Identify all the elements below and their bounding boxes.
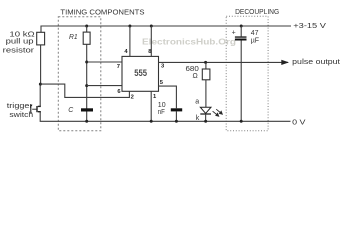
svg-text:DECOUPLING: DECOUPLING (235, 9, 279, 16)
trigger switch (39, 84, 41, 106)
svg-text:7: 7 (117, 64, 120, 70)
LED light arrows (213, 109, 223, 116)
svg-text:10: 10 (158, 102, 166, 109)
svg-text:nF: nF (158, 109, 165, 116)
svg-text:Ω: Ω (193, 73, 198, 80)
wire pin 1 to 0V (150, 91, 152, 121)
wire 0V rail (40, 112, 290, 122)
svg-text:pulse output: pulse output (292, 59, 340, 66)
svg-text:pull up: pull up (6, 38, 34, 45)
svg-text:2: 2 (131, 94, 134, 100)
resistor 680 (205, 62, 207, 69)
resistor R1 (85, 25, 88, 28)
wire pin 7 (87, 61, 122, 63)
svg-text:47: 47 (251, 30, 259, 37)
capacitor C (81, 108, 93, 111)
resistor 10k pull up (37, 32, 45, 45)
wire trigger to pin2 (40, 84, 129, 97)
dotted box DECOUPLING (226, 16, 268, 130)
node junction 10k/trigger (39, 83, 42, 86)
wire R1 bottom column to 0V (86, 44, 88, 121)
LED D1 (200, 107, 211, 113)
wire pin 4 (128, 25, 131, 28)
capacitor 47uF decoupling (240, 25, 243, 28)
svg-text:555: 555 (134, 67, 147, 78)
wire pin 3 pulse output (159, 61, 289, 63)
svg-text:ElectronicsHub.Org: ElectronicsHub.Org (142, 37, 236, 47)
svg-text:trigger: trigger (7, 103, 33, 110)
svg-text:TIMING COMPONENTS: TIMING COMPONENTS (60, 10, 144, 17)
capacitor 10nF (171, 108, 182, 111)
wire pin 8 (150, 25, 153, 28)
svg-text:resistor: resistor (3, 47, 35, 54)
svg-text:680: 680 (186, 66, 199, 73)
wire 680 to LED (205, 80, 207, 107)
dashed box TIMING COMPONENTS (58, 17, 101, 131)
svg-text:0 V: 0 V (292, 119, 306, 126)
wire +V rail (41, 26, 291, 32)
wire pin 5 to 10nF (159, 86, 177, 108)
svg-text:k: k (196, 115, 200, 122)
wire pin 6 (87, 85, 122, 87)
node junction C/0V (85, 120, 88, 123)
svg-text:a: a (195, 99, 199, 106)
svg-text:switch: switch (9, 112, 33, 119)
node junction pin3/680 (204, 61, 207, 64)
node junction pin6/C (85, 84, 88, 87)
svg-text:+: + (232, 29, 236, 36)
svg-text:µF: µF (251, 38, 259, 45)
svg-text:+3-15 V: +3-15 V (293, 23, 326, 30)
op-amp U1 555 timer box (122, 56, 159, 91)
svg-text:R1: R1 (69, 34, 78, 41)
node junction R1/pin7 (85, 61, 88, 64)
